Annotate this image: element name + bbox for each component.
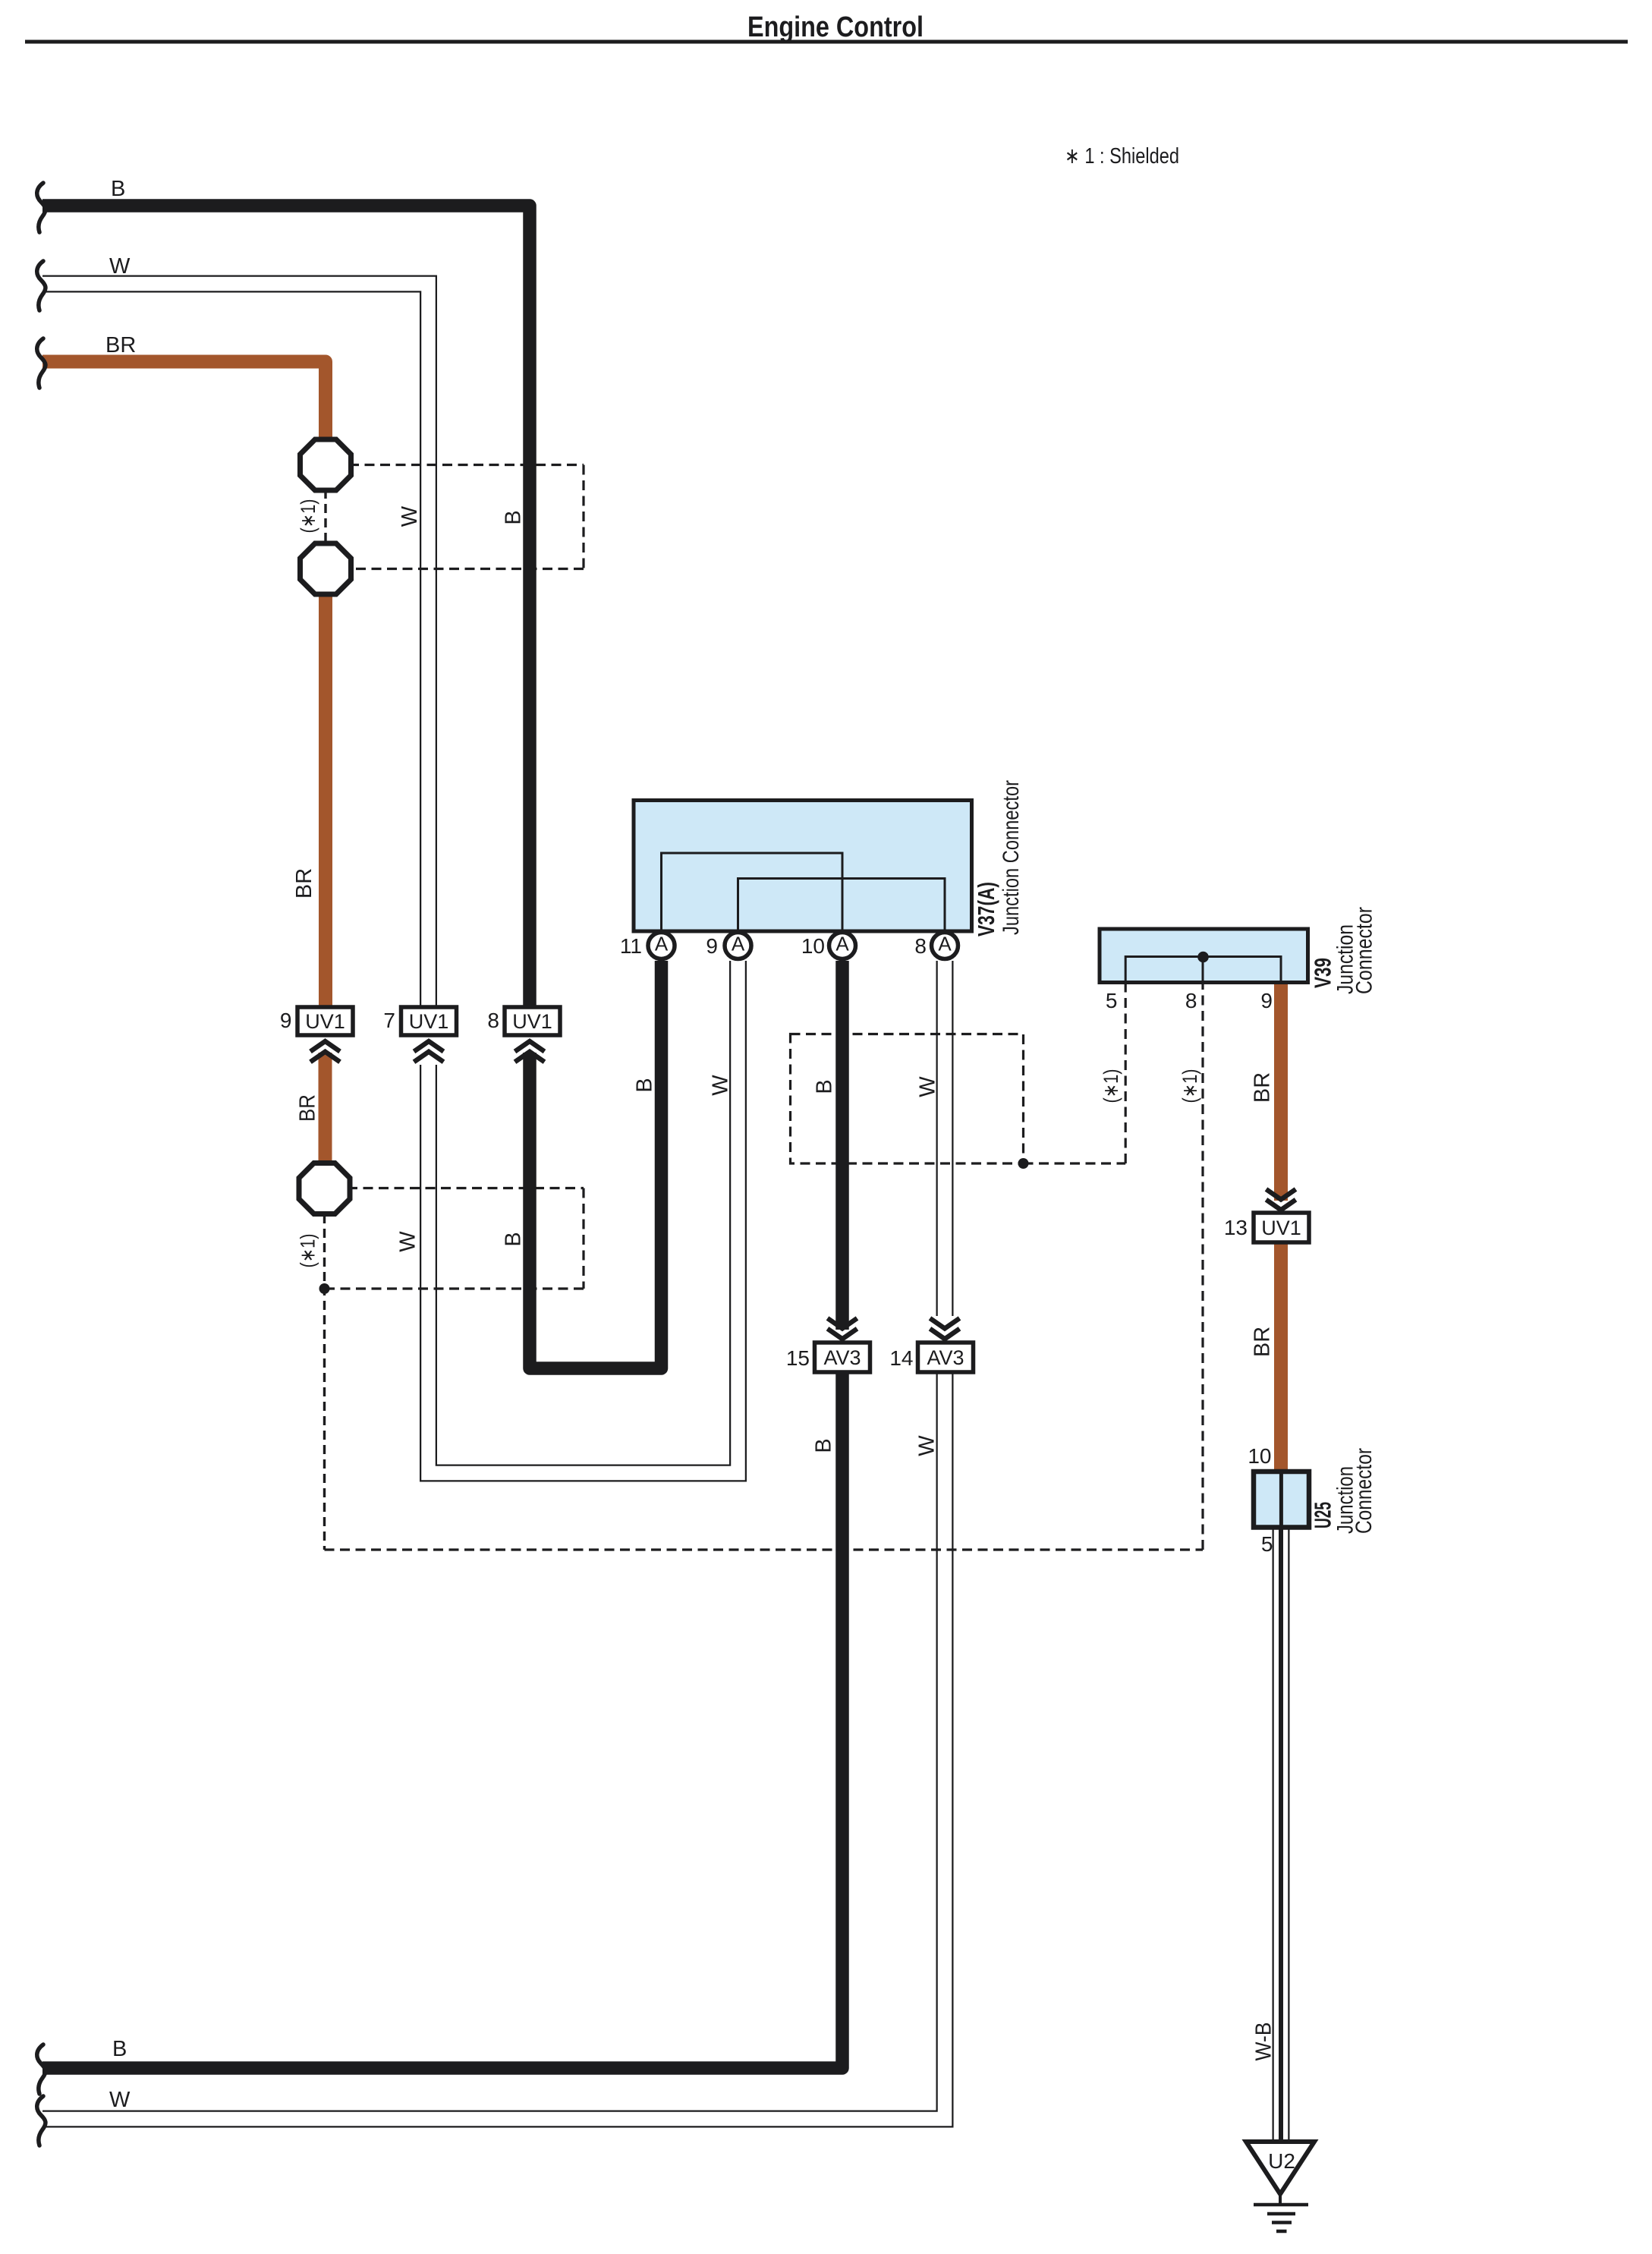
shield dashed line below octagon 3 down to junction and bus	[323, 1214, 326, 1550]
arrow chevrons above 15AV3	[828, 1318, 857, 1329]
shield dashed link from middle box to V39 pin 5	[1024, 1162, 1126, 1164]
svg-text:U25: U25	[1310, 1502, 1336, 1528]
svg-text:8: 8	[1185, 989, 1197, 1012]
V37(A) internal bus pin 11 to pin 10	[662, 853, 843, 931]
wire BR from V39 pin 9 through 13UV1 to U25 pin 10	[1274, 982, 1288, 1201]
svg-text:(∗1): (∗1)	[1178, 1069, 1201, 1103]
wire B from top-left to 8UV1 then to V37(A) pin 11	[42, 206, 530, 1032]
shield dashed box (octagon 3) top edge	[348, 1187, 584, 1189]
U25 divider	[1279, 1472, 1283, 1528]
V37(A) pin 10 terminal A	[829, 933, 856, 959]
svg-text:BR: BR	[1251, 1327, 1275, 1357]
svg-text:W: W	[709, 1075, 733, 1096]
V39 internal bus pin 5 to pin 9	[1125, 957, 1281, 983]
middle shield dashed box around B and W wires	[791, 1034, 1024, 1164]
wire-break brace (top-left BR)	[37, 338, 46, 388]
svg-text:5: 5	[1261, 1532, 1273, 1556]
junction connector U25 box	[1254, 1472, 1309, 1528]
connector 15 AV3 box	[815, 1343, 870, 1372]
long shield dashed horizontal run to V39 pin 8	[325, 1548, 1204, 1550]
svg-text:UV1: UV1	[305, 1010, 345, 1033]
title rule	[25, 40, 1628, 44]
V39 internal junction dot	[1197, 952, 1209, 963]
wire BR from shield octagon 2 through 9UV1 to octagon 3	[319, 554, 332, 1032]
shield dashed box (octagon 3) right edge	[582, 1188, 584, 1289]
wire W from V37(A) pin 8 through 14AV3 to bottom-left	[936, 961, 954, 1316]
shield dashed box right edge	[582, 465, 584, 569]
svg-text:∗ 1 : Shielded: ∗ 1 : Shielded	[1065, 144, 1179, 168]
connector 9 UV1 box	[297, 1007, 353, 1035]
wire W from top-left through 7UV1 to V37(A) pin 9	[42, 284, 429, 1032]
svg-text:B: B	[502, 1232, 526, 1246]
svg-text:B: B	[111, 177, 125, 201]
svg-text:V39: V39	[1310, 958, 1336, 988]
svg-text:W: W	[915, 1435, 939, 1456]
shield octagon 3	[299, 1163, 350, 1214]
shield octagon 2	[301, 543, 351, 594]
shield dashed box (octagons 1-2) top edge	[349, 464, 584, 466]
svg-text:9: 9	[706, 934, 718, 958]
arrow chevrons below 9UV1	[310, 1041, 340, 1052]
svg-text:14: 14	[889, 1346, 913, 1370]
svg-text:Engine Control: Engine Control	[747, 11, 924, 43]
shield octagon 1	[301, 439, 351, 490]
svg-text:A: A	[655, 933, 669, 955]
V37(A) pin 11 terminal A	[648, 933, 675, 959]
svg-text:15: 15	[786, 1346, 810, 1370]
shield dashed link between octagon 1 and octagon 2	[324, 490, 326, 544]
svg-text:UV1: UV1	[512, 1010, 552, 1033]
svg-text:BR: BR	[292, 868, 316, 899]
svg-text:8: 8	[914, 934, 927, 958]
svg-text:B: B	[813, 1079, 837, 1094]
svg-text:5: 5	[1106, 989, 1118, 1012]
svg-text:13: 13	[1224, 1216, 1248, 1239]
ground bar 4	[1276, 2230, 1287, 2234]
svg-text:W: W	[398, 505, 422, 527]
shield dashed box bottom edge	[349, 568, 584, 570]
svg-text:AV3: AV3	[823, 1346, 861, 1369]
svg-text:BR: BR	[105, 333, 136, 357]
connector 7 UV1 box	[401, 1007, 457, 1035]
wire-break brace (top-left W)	[37, 261, 46, 310]
svg-text:8: 8	[487, 1009, 499, 1032]
V37(A) internal bus pin 9 to pin 8	[738, 879, 946, 932]
junction dot on shield dashed line	[319, 1283, 330, 1294]
arrow chevrons above 13UV1	[1267, 1189, 1296, 1200]
svg-text:9: 9	[1260, 989, 1273, 1012]
svg-text:7: 7	[383, 1009, 395, 1032]
svg-text:W: W	[109, 254, 131, 279]
wire W-B from U25 pin 5 to ground U2	[1273, 1527, 1290, 2142]
ground stem	[1279, 2193, 1282, 2205]
junction dot on middle shield box	[1018, 1158, 1029, 1169]
svg-text:B: B	[112, 2037, 127, 2061]
svg-text:10: 10	[801, 934, 825, 958]
wire-break brace (bottom-left W)	[37, 2096, 46, 2145]
svg-text:Junction Connector: Junction Connector	[999, 780, 1024, 935]
svg-text:W: W	[109, 2088, 131, 2112]
svg-text:W-B: W-B	[1252, 2023, 1276, 2061]
svg-text:(∗1): (∗1)	[297, 499, 319, 534]
svg-text:Connector: Connector	[1352, 907, 1377, 994]
arrow chevrons below 8UV1	[515, 1041, 545, 1052]
svg-text:W: W	[396, 1231, 420, 1252]
svg-text:AV3: AV3	[927, 1346, 964, 1369]
V37(A) pin 9 terminal A	[725, 933, 751, 959]
svg-text:Connector: Connector	[1351, 1448, 1377, 1534]
svg-text:U2: U2	[1268, 2149, 1295, 2173]
svg-text:BR: BR	[296, 1094, 320, 1122]
junction connector V39 box	[1100, 929, 1308, 983]
wire B from V37(A) pin 10 through 15AV3 to bottom-left	[835, 961, 849, 1330]
ground bar 2	[1267, 2212, 1295, 2216]
ground bar 3	[1272, 2221, 1292, 2224]
ground bar 1	[1254, 2203, 1308, 2207]
V39 internal bus stub to pin 8	[1202, 957, 1204, 982]
svg-text:10: 10	[1248, 1444, 1271, 1468]
svg-text:(∗1): (∗1)	[297, 1234, 319, 1268]
arrow chevrons below 7UV1	[414, 1041, 444, 1052]
svg-text:UV1: UV1	[1261, 1217, 1301, 1239]
arrow chevrons above 14AV3	[930, 1318, 960, 1329]
wire BR from top-left to shield octagon 1	[42, 362, 326, 456]
svg-text:A: A	[732, 933, 745, 955]
svg-text:9: 9	[280, 1009, 292, 1032]
svg-text:W: W	[916, 1076, 940, 1097]
wire-break brace (bottom-left B)	[37, 2045, 46, 2094]
svg-text:11: 11	[620, 934, 642, 958]
shield dashed box (octagon 3) bottom edge	[325, 1287, 584, 1289]
shield dashed vertical up to V39 pin 8	[1201, 982, 1204, 1550]
svg-text:A: A	[938, 933, 952, 955]
svg-text:BR: BR	[1251, 1072, 1275, 1103]
wire BR below 9UV1 chevrons to octagon 3	[319, 1053, 332, 1198]
svg-text:B: B	[502, 510, 526, 524]
svg-text:V37(A): V37(A)	[973, 882, 999, 937]
connector 14 AV3 box	[918, 1343, 974, 1372]
wire-break brace (top-left B)	[37, 183, 46, 232]
junction connector V37(A) box	[634, 801, 972, 932]
connector 13 UV1 box	[1254, 1213, 1309, 1242]
connector 8 UV1 box	[505, 1007, 560, 1035]
svg-text:B: B	[633, 1078, 657, 1092]
svg-text:A: A	[835, 933, 849, 955]
svg-text:(∗1): (∗1)	[1100, 1069, 1122, 1103]
ground U2 triangle	[1246, 2142, 1314, 2194]
V37(A) pin 8 terminal A	[932, 933, 958, 959]
svg-text:UV1: UV1	[409, 1010, 449, 1033]
svg-text:B: B	[812, 1438, 836, 1453]
